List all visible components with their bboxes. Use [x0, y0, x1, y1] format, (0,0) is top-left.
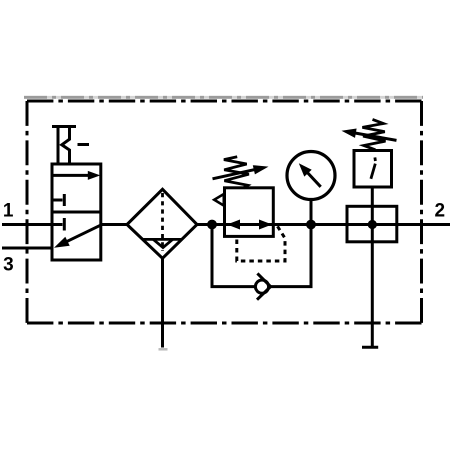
svg-text:3: 3 — [3, 255, 14, 276]
svg-text:1: 1 — [3, 201, 14, 222]
svg-text:2: 2 — [435, 200, 446, 221]
